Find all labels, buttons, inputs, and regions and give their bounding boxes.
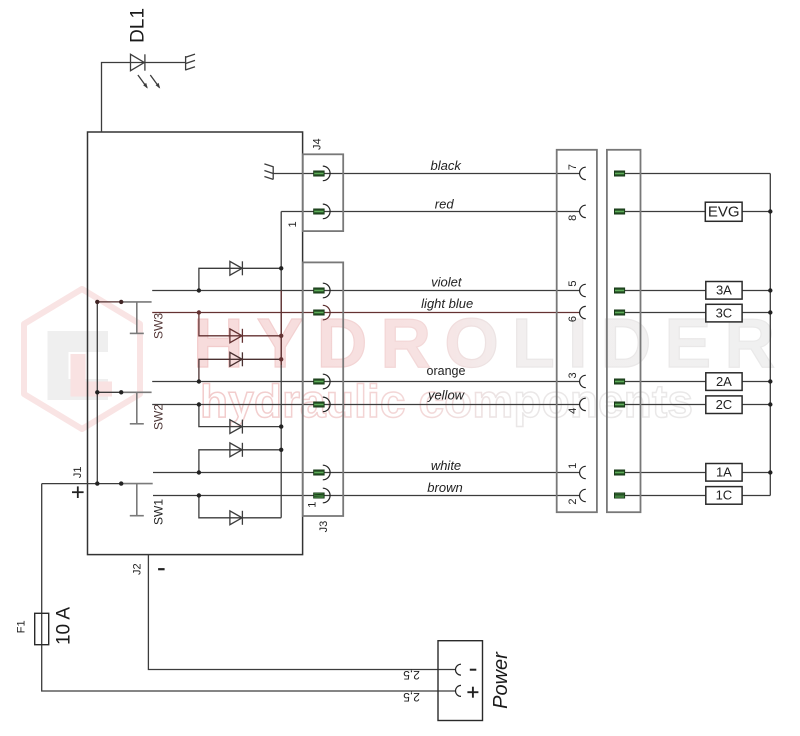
label + at J1 (72, 486, 84, 498)
J3 pin (white) (314, 465, 330, 480)
svg-text:J1: J1 (72, 466, 84, 478)
J3 pin (violet) (314, 283, 330, 298)
node 2C-bus (768, 402, 772, 406)
switch SW3 (95, 300, 165, 339)
ground (chassis) at DL1 (186, 54, 195, 70)
svg-text:2,5: 2,5 (403, 668, 420, 682)
B2 pin (black) (615, 171, 625, 176)
svg-text:J4: J4 (312, 138, 324, 150)
svg-text:Power: Power (490, 651, 512, 709)
node 2A-bus (768, 379, 772, 383)
J4 pin 1 (red) (314, 204, 330, 219)
wire white (153, 472, 580, 474)
svg-text:light blue: light blue (421, 296, 473, 311)
right bus wire (769, 174, 771, 496)
wire yellow (152, 404, 579, 406)
svg-text:1: 1 (287, 221, 299, 227)
svg-text:SW3: SW3 (152, 313, 166, 339)
svg-text:1C: 1C (716, 488, 733, 503)
wire brown (153, 495, 580, 497)
box 2A (706, 373, 742, 391)
svg-text:2A: 2A (716, 374, 732, 389)
LED DL1 (131, 54, 160, 87)
svg-text:SW1: SW1 (152, 499, 166, 525)
diode D-SW1A (199, 443, 281, 473)
B1 pin 3 (580, 375, 586, 387)
svg-text:3: 3 (567, 372, 579, 378)
box 1C (706, 487, 742, 505)
svg-text:brown: brown (427, 480, 462, 495)
Power pin - (456, 664, 462, 675)
LED DL1 wire (102, 63, 186, 133)
J3 pin (orange) (314, 374, 330, 389)
svg-text:8: 8 (567, 215, 579, 221)
svg-text:2C: 2C (716, 397, 733, 412)
svg-text:1A: 1A (716, 465, 732, 480)
diode D-SW2C (199, 405, 281, 434)
diode D-SW3A (199, 261, 281, 290)
svg-text:DL1: DL1 (128, 8, 149, 43)
J3 pin 1 (brown) (314, 488, 330, 503)
B2 pin (light blue) (615, 310, 625, 315)
svg-text:5: 5 (567, 281, 579, 287)
box 2C (706, 396, 742, 414)
svg-text:HYDROLIDER: HYDROLIDER (193, 304, 775, 382)
terminal J1 wire (42, 484, 456, 691)
switch SW1 (42, 481, 166, 525)
fuse F1 (35, 613, 49, 644)
connector J3 box (303, 262, 343, 516)
B1 pin 1 (580, 466, 586, 478)
B1 pin 5 (580, 284, 586, 296)
svg-text:white: white (431, 458, 461, 473)
B1 pin 7 (580, 167, 586, 179)
B2 pin (red) (615, 209, 625, 214)
B1 pin 2 (580, 489, 586, 501)
B2 pin (orange) (615, 379, 625, 384)
svg-text:2,5: 2,5 (403, 690, 420, 704)
box 3C (706, 304, 742, 322)
svg-text:3C: 3C (716, 305, 733, 320)
B2 pin (violet) (615, 288, 625, 293)
svg-text:1: 1 (567, 463, 579, 469)
B2 pin (brown) (615, 493, 625, 498)
svg-text:7: 7 (567, 164, 579, 170)
svg-text:3A: 3A (716, 283, 732, 298)
label - at J2 (158, 568, 165, 570)
node EVG-bus (768, 209, 772, 213)
wire light blue (152, 312, 579, 314)
svg-text:2: 2 (567, 498, 579, 504)
svg-text:6: 6 (567, 316, 579, 322)
terminal J2 wire (148, 555, 455, 670)
connector J4 box (303, 154, 343, 231)
J3 pin (yellow) (314, 397, 330, 412)
svg-text:yellow: yellow (427, 388, 466, 403)
wire violet (152, 290, 579, 292)
box 1A (706, 464, 742, 482)
J4 pin (black) (314, 166, 330, 181)
B1 pin 6 (580, 306, 586, 318)
connector B2 box (607, 150, 641, 512)
wire red (281, 211, 579, 213)
svg-text:red: red (435, 196, 455, 211)
B2 pin (yellow) (615, 402, 625, 407)
svg-text:4: 4 (567, 408, 579, 414)
svg-text:J2: J2 (132, 563, 144, 575)
svg-text:1: 1 (307, 502, 319, 508)
switch SW2 (95, 390, 165, 430)
svg-text:EVG: EVG (708, 204, 740, 221)
diode D-SW1C (199, 496, 281, 525)
control box (88, 132, 303, 555)
wire orange (152, 381, 579, 383)
B1 pin 4 (580, 398, 586, 410)
J3 pin (light blue) (314, 305, 330, 320)
diode bus wire (280, 212, 282, 518)
diode D-SW2A (199, 352, 281, 381)
Power supply box (438, 641, 483, 721)
ground (chassis) at J4 black wire (264, 164, 273, 180)
B2 pin (white) (615, 470, 625, 475)
svg-text:SW2: SW2 (152, 404, 166, 430)
svg-text:J3: J3 (318, 521, 330, 533)
svg-text:F1: F1 (16, 620, 28, 633)
wire black (273, 173, 579, 175)
node 3C-bus (768, 310, 772, 314)
box 3A (706, 282, 742, 300)
Power pin + (456, 685, 462, 696)
B1 pin 8 (580, 205, 586, 217)
connector B1 box (numbered socket) (557, 150, 597, 512)
watermark logo hexagon (24, 289, 140, 429)
node 1A-bus (768, 470, 772, 474)
svg-text:black: black (431, 158, 463, 173)
switch rail wire (96, 302, 98, 484)
diode D-SW3C (199, 313, 281, 343)
svg-text:10 A: 10 A (53, 607, 74, 645)
svg-text:violet: violet (431, 274, 463, 289)
node 3A-bus (768, 288, 772, 292)
box EVG (705, 202, 742, 221)
svg-text:orange: orange (427, 364, 466, 378)
